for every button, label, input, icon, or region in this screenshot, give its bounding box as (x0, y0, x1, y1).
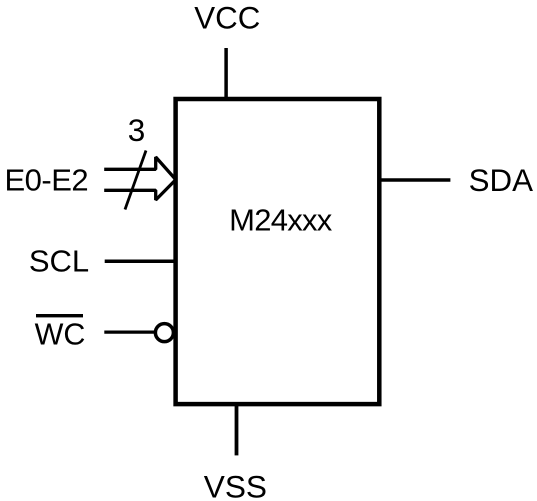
wire VCC pin (224, 48, 228, 99)
svg-text:E0-E2: E0-E2 (4, 162, 88, 197)
svg-text:VSS: VSS (204, 468, 267, 501)
svg-text:3: 3 (128, 112, 146, 148)
wire SCL pin (105, 260, 175, 264)
bus arrow E0-E2 (3-bit) (104, 157, 176, 200)
wire SDA pin (379, 178, 450, 181)
svg-text:SDA: SDA (469, 163, 533, 198)
svg-text:SCL: SCL (29, 243, 89, 278)
wire VSS pin (235, 404, 239, 455)
inversion bubble on WC (155, 324, 173, 342)
wire WC pin (104, 331, 154, 334)
svg-text:VCC: VCC (194, 1, 260, 36)
svg-text:WC: WC (35, 317, 86, 351)
IC body U1 M24xxx (176, 99, 380, 404)
svg-text:M24xxx: M24xxx (229, 202, 333, 237)
bus width slash (125, 151, 146, 210)
